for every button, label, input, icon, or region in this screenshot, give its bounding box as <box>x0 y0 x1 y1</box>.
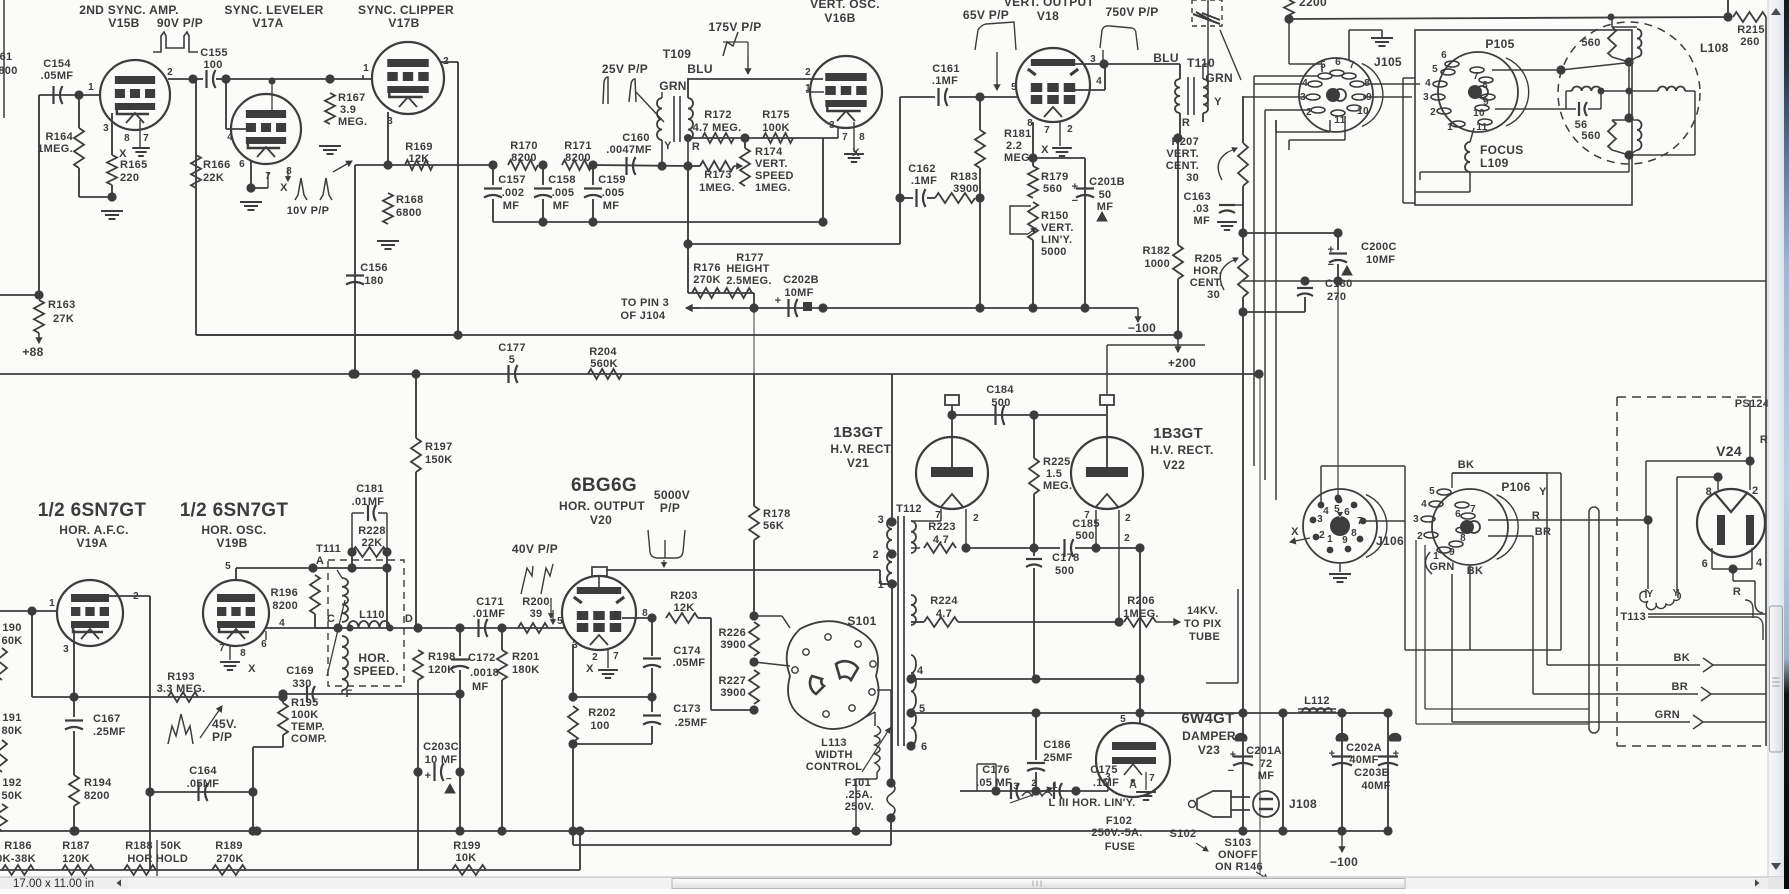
svg-text:GRN: GRN <box>659 79 687 93</box>
svg-text:V23: V23 <box>1198 743 1220 757</box>
svg-text:270K: 270K <box>693 274 721 286</box>
svg-text:−: − <box>446 774 452 785</box>
svg-text:R169: R169 <box>405 141 433 153</box>
svg-text:MF: MF <box>1194 215 1210 227</box>
svg-text:C157: C157 <box>498 174 526 186</box>
svg-text:3.3 MEG.: 3.3 MEG. <box>157 683 206 695</box>
svg-text:500: 500 <box>991 397 1010 409</box>
svg-text:1B3GT: 1B3GT <box>1153 425 1203 442</box>
svg-text:MF: MF <box>503 200 519 212</box>
svg-text:R183: R183 <box>950 171 978 183</box>
svg-text:5: 5 <box>1432 64 1438 75</box>
svg-text:6800: 6800 <box>396 207 422 219</box>
svg-text:X: X <box>119 148 127 160</box>
svg-text:56K: 56K <box>763 520 784 532</box>
svg-text:2200: 2200 <box>1299 0 1327 9</box>
svg-text:X: X <box>248 663 256 675</box>
svg-text:.1MF: .1MF <box>911 175 937 187</box>
svg-text:7: 7 <box>1149 773 1155 784</box>
svg-text:SYNC. LEVELER: SYNC. LEVELER <box>224 3 323 17</box>
svg-text:C171: C171 <box>476 596 504 608</box>
svg-text:FUSE: FUSE <box>1105 841 1136 853</box>
svg-text:50: 50 <box>1099 189 1112 201</box>
svg-text:R171: R171 <box>564 140 592 152</box>
svg-text:750V P/P: 750V P/P <box>1105 5 1158 19</box>
svg-text:.05MF: .05MF <box>41 70 74 82</box>
svg-text:8: 8 <box>1351 528 1357 539</box>
svg-text:2: 2 <box>1124 533 1130 544</box>
svg-text:MF: MF <box>553 200 569 212</box>
svg-text:C203B: C203B <box>1354 767 1390 779</box>
svg-text:250V.: 250V. <box>845 801 874 813</box>
svg-text:R179: R179 <box>1041 171 1069 183</box>
svg-text:F102: F102 <box>1106 815 1132 827</box>
svg-text:−: − <box>1328 259 1335 271</box>
svg-text:VERT.: VERT. <box>1166 148 1199 160</box>
svg-text:C169: C169 <box>286 665 314 677</box>
svg-text:40MF: 40MF <box>1361 780 1390 792</box>
svg-text:1: 1 <box>1327 534 1333 545</box>
svg-text:R189: R189 <box>215 840 243 852</box>
svg-text:R: R <box>1733 586 1741 598</box>
svg-text:C156: C156 <box>360 262 388 274</box>
svg-text:100: 100 <box>203 59 222 71</box>
svg-text:V22: V22 <box>1163 458 1185 472</box>
svg-text:HOR. OSC.: HOR. OSC. <box>201 523 266 537</box>
svg-text:GRN: GRN <box>1205 71 1233 85</box>
svg-text:DAMPER: DAMPER <box>1182 729 1236 743</box>
svg-text:1: 1 <box>1052 780 1057 790</box>
svg-text:175V P/P: 175V P/P <box>708 20 761 34</box>
svg-text:ONOFF: ONOFF <box>1218 849 1258 861</box>
svg-text:C159: C159 <box>598 174 626 186</box>
svg-text:40MF: 40MF <box>1349 754 1378 766</box>
svg-text:MF: MF <box>603 200 619 212</box>
svg-text:V19A: V19A <box>76 536 107 550</box>
svg-text:−100: −100 <box>1330 855 1358 869</box>
svg-text:C180: C180 <box>1325 278 1353 290</box>
svg-text:R207: R207 <box>1172 136 1200 148</box>
svg-text:HOR.: HOR. <box>1193 265 1222 277</box>
svg-text:J105: J105 <box>1374 55 1402 69</box>
svg-text:BR: BR <box>1672 681 1689 693</box>
svg-text:3: 3 <box>829 120 835 131</box>
svg-text:61: 61 <box>0 51 12 63</box>
svg-text:6W4GT: 6W4GT <box>1181 710 1234 727</box>
svg-text:2ND SYNC. AMP.: 2ND SYNC. AMP. <box>79 3 179 17</box>
svg-text:+200: +200 <box>1168 356 1196 370</box>
svg-text:R: R <box>1760 434 1768 446</box>
svg-text:SYNC. CLIPPER: SYNC. CLIPPER <box>358 3 454 17</box>
svg-text:C178: C178 <box>1052 552 1080 564</box>
svg-text:1MEG.: 1MEG. <box>37 143 73 155</box>
svg-text:R167: R167 <box>338 92 366 104</box>
svg-text:R181: R181 <box>1004 128 1032 140</box>
svg-text:R163: R163 <box>48 299 76 311</box>
svg-text:14KV.: 14KV. <box>1187 605 1218 617</box>
svg-text:HOR.: HOR. <box>358 651 389 665</box>
svg-text:V21: V21 <box>847 456 869 470</box>
svg-text:6: 6 <box>1335 57 1341 68</box>
svg-text:T109: T109 <box>663 47 692 61</box>
svg-text:250V.-5A.: 250V.-5A. <box>1091 827 1142 839</box>
svg-text:4: 4 <box>917 665 924 677</box>
svg-text:V15B: V15B <box>108 16 139 30</box>
svg-text:65V P/P: 65V P/P <box>963 8 1009 22</box>
svg-text:8: 8 <box>1706 486 1712 498</box>
svg-text:+: + <box>1329 748 1336 760</box>
svg-text:R: R <box>692 141 700 153</box>
svg-text:560: 560 <box>1043 183 1062 195</box>
svg-text:R201: R201 <box>512 651 540 663</box>
svg-text:3.9: 3.9 <box>340 104 356 116</box>
svg-text:1MEG.: 1MEG. <box>1123 608 1159 620</box>
svg-text:J108: J108 <box>1289 797 1317 811</box>
svg-text:10 MF: 10 MF <box>425 754 458 766</box>
svg-text:D: D <box>405 613 413 625</box>
svg-text:2: 2 <box>592 652 598 663</box>
svg-text:7: 7 <box>143 133 149 144</box>
svg-text:R194: R194 <box>84 777 112 789</box>
svg-text:500: 500 <box>1055 565 1074 577</box>
svg-text:6BG6G: 6BG6G <box>571 475 637 496</box>
svg-text:.0047MF: .0047MF <box>606 144 652 156</box>
svg-text:12K: 12K <box>408 153 429 165</box>
svg-text:Y: Y <box>1214 96 1222 108</box>
svg-text:180K: 180K <box>512 664 540 676</box>
svg-text:191: 191 <box>2 712 21 724</box>
svg-text:Y: Y <box>1539 486 1547 498</box>
svg-text:30: 30 <box>1207 289 1220 301</box>
svg-text:R176: R176 <box>693 262 721 274</box>
svg-text:R182: R182 <box>1143 245 1171 257</box>
svg-text:V19B: V19B <box>216 536 247 550</box>
svg-text:Y: Y <box>664 140 672 152</box>
svg-text:C162: C162 <box>908 163 936 175</box>
svg-text:60K: 60K <box>1 635 22 647</box>
svg-text:.05MF: .05MF <box>187 778 220 790</box>
svg-text:4: 4 <box>1323 506 1329 517</box>
svg-text:R225: R225 <box>1043 456 1071 468</box>
svg-text:MEG.: MEG. <box>338 116 367 128</box>
svg-text:10: 10 <box>1473 108 1485 119</box>
svg-text:100: 100 <box>590 720 609 732</box>
svg-text:H.V. RECT.: H.V. RECT. <box>1150 443 1213 457</box>
svg-text:45V.: 45V. <box>212 717 237 731</box>
svg-text:2: 2 <box>167 67 173 78</box>
svg-text:J106: J106 <box>1376 534 1404 548</box>
svg-text:V20: V20 <box>590 513 612 527</box>
svg-text:C160: C160 <box>622 132 650 144</box>
svg-text:R178: R178 <box>763 508 791 520</box>
svg-text:5: 5 <box>509 354 515 366</box>
svg-text:C167: C167 <box>93 713 121 725</box>
svg-text:3900: 3900 <box>953 183 979 195</box>
svg-text:R200: R200 <box>522 596 550 608</box>
svg-text:22K: 22K <box>203 172 224 184</box>
svg-text:4: 4 <box>1421 499 1427 510</box>
svg-text:R206: R206 <box>1127 595 1155 607</box>
svg-text:V24: V24 <box>1716 443 1742 459</box>
svg-text:1: 1 <box>88 82 94 93</box>
svg-text:P/P: P/P <box>660 501 680 515</box>
svg-text:C163: C163 <box>1184 191 1212 203</box>
svg-text:0K-38K: 0K-38K <box>0 853 36 865</box>
svg-text:90V P/P: 90V P/P <box>157 16 203 30</box>
svg-text:3: 3 <box>103 123 109 134</box>
svg-text:500: 500 <box>1075 530 1094 542</box>
svg-text:R170: R170 <box>510 140 538 152</box>
svg-text:7: 7 <box>1044 125 1050 136</box>
svg-text:560: 560 <box>1581 37 1600 49</box>
svg-text:120K: 120K <box>428 664 456 676</box>
svg-text:Y: Y <box>1647 589 1654 600</box>
svg-text:R198: R198 <box>428 651 456 663</box>
svg-text:C154: C154 <box>43 58 71 70</box>
svg-text:T112: T112 <box>896 503 922 515</box>
svg-text:R193: R193 <box>167 671 195 683</box>
svg-text:FOCUS: FOCUS <box>1480 143 1524 157</box>
svg-text:L III HOR. LIN'Y.: L III HOR. LIN'Y. <box>1049 797 1136 809</box>
svg-text:50K: 50K <box>160 840 181 852</box>
svg-text:HOR. OUTPUT: HOR. OUTPUT <box>559 499 645 513</box>
svg-text:1000: 1000 <box>1144 258 1170 270</box>
svg-text:150K: 150K <box>425 454 453 466</box>
svg-text:2: 2 <box>1306 107 1312 118</box>
svg-text:V17B: V17B <box>388 16 419 30</box>
svg-text:1.5: 1.5 <box>1046 468 1062 480</box>
svg-text:1B3GT: 1B3GT <box>833 424 883 441</box>
svg-text:1MEG.: 1MEG. <box>699 182 735 194</box>
svg-text:5000V: 5000V <box>654 488 690 502</box>
svg-text:A: A <box>316 555 324 567</box>
svg-text:C: C <box>327 613 335 625</box>
svg-text:2.2: 2.2 <box>1006 140 1022 152</box>
svg-text:1: 1 <box>1447 122 1453 133</box>
svg-text:R223: R223 <box>928 521 956 533</box>
svg-text:LIN'Y.: LIN'Y. <box>1041 234 1072 246</box>
svg-text:BLU: BLU <box>1153 51 1179 65</box>
svg-text:10V P/P: 10V P/P <box>287 205 329 217</box>
svg-text:C176: C176 <box>982 764 1010 776</box>
svg-text:.1MF: .1MF <box>932 75 958 87</box>
svg-text:6: 6 <box>1702 558 1708 570</box>
svg-text:8200: 8200 <box>272 600 298 612</box>
svg-text:VERT. OSC.: VERT. OSC. <box>810 0 880 11</box>
svg-text:R172: R172 <box>704 109 732 121</box>
svg-text:R203: R203 <box>670 590 698 602</box>
svg-text:40V P/P: 40V P/P <box>512 542 558 556</box>
svg-text:190: 190 <box>2 622 21 634</box>
svg-text:120K: 120K <box>62 853 90 865</box>
svg-text:+: + <box>1328 244 1335 256</box>
svg-text:HOLD: HOLD <box>156 853 188 865</box>
svg-text:HOR: HOR <box>127 853 152 865</box>
svg-text:SPEED: SPEED <box>755 170 794 182</box>
svg-text:+: + <box>1393 748 1400 760</box>
svg-text:+: + <box>1072 181 1079 193</box>
svg-text:R228: R228 <box>358 525 386 537</box>
svg-text:X: X <box>1291 526 1299 538</box>
svg-text:6: 6 <box>239 159 245 170</box>
svg-text:VERT.: VERT. <box>755 158 788 170</box>
svg-text:T110: T110 <box>1187 56 1215 70</box>
svg-text:2: 2 <box>805 67 811 78</box>
svg-text:.1MF: .1MF <box>1093 777 1119 789</box>
svg-text:C173: C173 <box>673 703 701 715</box>
svg-text:.0018: .0018 <box>470 667 499 679</box>
svg-text:3: 3 <box>1013 781 1018 791</box>
svg-text:10: 10 <box>1357 106 1369 117</box>
svg-text:270: 270 <box>1327 291 1346 303</box>
svg-text:8200: 8200 <box>511 152 537 164</box>
svg-text:25MF: 25MF <box>1043 752 1072 764</box>
svg-text:11: 11 <box>1476 122 1487 133</box>
svg-text:.03: .03 <box>1193 203 1209 215</box>
svg-text:GRN: GRN <box>1429 561 1454 573</box>
svg-text:10K: 10K <box>455 852 476 864</box>
svg-text:560: 560 <box>1581 130 1600 142</box>
svg-text:6: 6 <box>1455 509 1461 520</box>
svg-text:X: X <box>280 182 288 194</box>
svg-text:C202B: C202B <box>783 274 819 286</box>
svg-text:260: 260 <box>1740 36 1759 48</box>
svg-text:4.7: 4.7 <box>933 534 949 546</box>
svg-text:S103: S103 <box>1225 837 1252 849</box>
svg-text:3: 3 <box>1317 514 1323 525</box>
svg-text:R187: R187 <box>62 840 90 852</box>
svg-text:80K: 80K <box>1 725 22 737</box>
svg-text:V17A: V17A <box>252 16 283 30</box>
svg-text:C201B: C201B <box>1089 176 1125 188</box>
svg-text:C177: C177 <box>498 342 526 354</box>
svg-text:192: 192 <box>2 777 21 789</box>
svg-text:6: 6 <box>261 639 267 650</box>
svg-text:.005: .005 <box>552 187 575 199</box>
svg-text:1: 1 <box>363 63 369 74</box>
svg-text:R224: R224 <box>930 595 958 607</box>
svg-text:8: 8 <box>124 133 130 144</box>
svg-text:.25A.: .25A. <box>845 789 873 801</box>
svg-text:−: − <box>1228 765 1235 777</box>
svg-text:VERT. OUTPUT: VERT. OUTPUT <box>1004 0 1095 9</box>
svg-text:2: 2 <box>1752 485 1758 497</box>
svg-text:BLU: BLU <box>687 62 713 76</box>
svg-text:+: + <box>425 770 432 782</box>
svg-text:P/P: P/P <box>212 730 232 744</box>
svg-text:R227: R227 <box>719 675 747 687</box>
svg-text:7: 7 <box>1084 510 1090 521</box>
svg-text:7: 7 <box>613 651 619 662</box>
svg-text:8: 8 <box>240 648 246 659</box>
svg-text:17.00 x 11.00 in: 17.00 x 11.00 in <box>13 878 94 889</box>
svg-text:10MF: 10MF <box>784 287 813 299</box>
svg-text:2: 2 <box>1430 107 1436 118</box>
svg-text:HEIGHT: HEIGHT <box>726 263 769 275</box>
svg-text:.05 MF: .05 MF <box>976 777 1012 789</box>
svg-text:11: 11 <box>1334 115 1345 126</box>
svg-text:GRN: GRN <box>1655 709 1680 721</box>
svg-text:8200: 8200 <box>84 790 110 802</box>
svg-text:220: 220 <box>120 172 139 184</box>
svg-text:72: 72 <box>1260 758 1273 770</box>
svg-text:R173: R173 <box>704 169 732 181</box>
svg-text:R165: R165 <box>120 159 148 171</box>
svg-text:MF: MF <box>472 681 488 693</box>
svg-text:6: 6 <box>921 741 927 753</box>
svg-text:C174: C174 <box>673 645 701 657</box>
svg-text:OF J104: OF J104 <box>621 310 666 322</box>
svg-text:R202: R202 <box>588 707 616 719</box>
svg-text:560K: 560K <box>590 358 618 370</box>
svg-text:.01MF: .01MF <box>352 496 385 508</box>
svg-text:C186: C186 <box>1043 739 1071 751</box>
svg-text:V18: V18 <box>1037 9 1059 23</box>
svg-text:270K: 270K <box>216 853 244 865</box>
svg-text:R175: R175 <box>762 109 790 121</box>
svg-text:1: 1 <box>49 598 55 609</box>
svg-text:30: 30 <box>1186 172 1199 184</box>
svg-text:BR: BR <box>1535 526 1552 538</box>
svg-text:4: 4 <box>1756 557 1763 569</box>
svg-text:.05MF: .05MF <box>673 657 706 669</box>
svg-text:R186: R186 <box>4 840 32 852</box>
svg-text:MEG.: MEG. <box>1043 480 1072 492</box>
svg-text:100K: 100K <box>762 122 790 134</box>
svg-text:X: X <box>1041 144 1049 156</box>
svg-text:10MF: 10MF <box>1366 254 1395 266</box>
svg-text:MF: MF <box>1097 201 1113 213</box>
svg-text:CONTROL: CONTROL <box>806 761 862 773</box>
svg-text:7: 7 <box>935 510 941 521</box>
svg-text:39: 39 <box>530 608 543 620</box>
svg-text:R226: R226 <box>719 627 747 639</box>
svg-text:R166: R166 <box>203 159 231 171</box>
svg-text:S102: S102 <box>1170 828 1197 840</box>
svg-text:3: 3 <box>63 644 69 655</box>
svg-text:12K: 12K <box>673 602 694 614</box>
svg-text:6: 6 <box>1441 50 1447 61</box>
svg-text:T113: T113 <box>1620 611 1646 623</box>
svg-text:2: 2 <box>1125 513 1131 524</box>
svg-text:.002: .002 <box>502 187 525 199</box>
svg-text:VERT.: VERT. <box>1041 222 1074 234</box>
svg-text:4.7: 4.7 <box>936 608 952 620</box>
svg-text:T111: T111 <box>316 543 341 555</box>
svg-text:TEMP.: TEMP. <box>291 721 325 733</box>
svg-text:7: 7 <box>1357 516 1363 527</box>
svg-text:6: 6 <box>1344 507 1350 518</box>
svg-text:C181: C181 <box>356 483 384 495</box>
svg-text:R: R <box>1182 117 1190 129</box>
svg-text:C184: C184 <box>986 384 1014 396</box>
svg-text:V16B: V16B <box>824 11 855 25</box>
svg-text:TO PIX: TO PIX <box>1184 618 1222 630</box>
svg-text:HOR. A.F.C.: HOR. A.F.C. <box>59 523 129 537</box>
svg-text:C201A: C201A <box>1246 745 1282 757</box>
svg-text:7: 7 <box>1349 60 1355 71</box>
svg-text:R205: R205 <box>1195 253 1223 265</box>
svg-text:−100: −100 <box>1128 321 1156 335</box>
svg-text:330: 330 <box>292 678 311 690</box>
svg-text:L112: L112 <box>1304 695 1330 707</box>
svg-text:R204: R204 <box>589 346 617 358</box>
svg-text:R188: R188 <box>125 840 153 852</box>
svg-text:BK: BK <box>1467 565 1484 577</box>
svg-text:4: 4 <box>227 132 233 143</box>
svg-text:22K: 22K <box>361 537 382 549</box>
svg-text:800: 800 <box>0 65 18 77</box>
